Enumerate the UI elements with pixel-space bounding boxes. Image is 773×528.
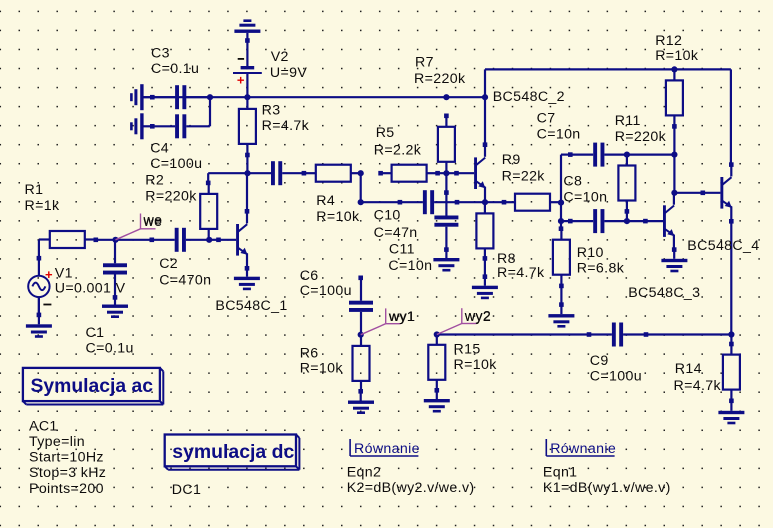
svg-text:R=10k: R=10k bbox=[655, 48, 699, 64]
svg-text:C=0.1u: C=0.1u bbox=[86, 341, 134, 357]
svg-text:R=1k: R=1k bbox=[25, 198, 60, 214]
svg-text:C3: C3 bbox=[151, 45, 170, 61]
svg-text:R5: R5 bbox=[376, 125, 395, 141]
svg-text:R=10k: R=10k bbox=[300, 361, 344, 377]
svg-text:wy1: wy1 bbox=[388, 309, 415, 325]
svg-text:V2: V2 bbox=[271, 49, 289, 65]
svg-text:R=4.7k: R=4.7k bbox=[674, 378, 722, 394]
svg-text:R=2.2k: R=2.2k bbox=[374, 142, 422, 158]
svg-text:R=22k: R=22k bbox=[502, 169, 546, 185]
svg-text:R=10k: R=10k bbox=[316, 209, 360, 225]
svg-text:Równanie: Równanie bbox=[550, 441, 616, 457]
svg-text:C2: C2 bbox=[159, 256, 178, 272]
svg-text:wy2: wy2 bbox=[464, 309, 491, 325]
svg-text:R11: R11 bbox=[615, 113, 641, 129]
svg-text:AC1: AC1 bbox=[29, 419, 58, 435]
svg-text:R15: R15 bbox=[454, 342, 481, 358]
svg-text:R2: R2 bbox=[145, 172, 164, 188]
svg-text:U=0.001 V: U=0.001 V bbox=[55, 281, 126, 297]
svg-text:V1: V1 bbox=[55, 265, 73, 281]
svg-text:C8: C8 bbox=[563, 174, 582, 190]
svg-text:R=10k: R=10k bbox=[454, 357, 498, 373]
svg-text:C4: C4 bbox=[150, 141, 169, 157]
svg-text:BC548C_3: BC548C_3 bbox=[628, 285, 700, 301]
svg-text:C=10n: C=10n bbox=[537, 127, 581, 143]
svg-text:R4: R4 bbox=[316, 193, 335, 209]
svg-text:U=9V: U=9V bbox=[270, 65, 307, 81]
svg-text:C11: C11 bbox=[389, 242, 415, 258]
svg-text:Stop=3 kHz: Stop=3 kHz bbox=[29, 465, 106, 481]
svg-text:R=4.7k: R=4.7k bbox=[497, 265, 545, 281]
svg-text:R=220k: R=220k bbox=[145, 188, 197, 204]
svg-text:Eqn1: Eqn1 bbox=[543, 465, 578, 481]
svg-text:Równanie: Równanie bbox=[354, 441, 420, 457]
svg-text:C=100u: C=100u bbox=[590, 368, 642, 384]
svg-text:R1: R1 bbox=[25, 182, 44, 198]
svg-text:BC548C_2: BC548C_2 bbox=[493, 89, 565, 105]
svg-text:Points=200: Points=200 bbox=[29, 481, 104, 497]
svg-text:Start=10Hz: Start=10Hz bbox=[29, 450, 104, 466]
svg-text:R12: R12 bbox=[655, 33, 682, 49]
svg-text:R3: R3 bbox=[262, 102, 281, 118]
svg-text:C9: C9 bbox=[590, 353, 609, 369]
svg-text:R9: R9 bbox=[502, 152, 521, 168]
svg-text:C=10n: C=10n bbox=[388, 258, 432, 274]
svg-text:C=470n: C=470n bbox=[159, 272, 211, 288]
svg-text:we: we bbox=[143, 212, 163, 228]
svg-text:+: + bbox=[45, 267, 53, 282]
svg-text:C10: C10 bbox=[374, 207, 401, 223]
svg-text:BC548C_1: BC548C_1 bbox=[215, 298, 287, 314]
svg-text:Eqn2: Eqn2 bbox=[347, 465, 382, 481]
svg-text:+: + bbox=[237, 72, 245, 87]
svg-text:R6: R6 bbox=[300, 345, 319, 361]
svg-text:C7: C7 bbox=[537, 111, 556, 127]
svg-text:Type=lin: Type=lin bbox=[29, 434, 85, 450]
svg-text:C=0.1u: C=0.1u bbox=[151, 61, 199, 77]
svg-text:R7: R7 bbox=[415, 55, 434, 71]
svg-text:symulacja dc: symulacja dc bbox=[172, 441, 294, 463]
svg-text:C1: C1 bbox=[86, 325, 105, 341]
svg-text:Symulacja ac: Symulacja ac bbox=[31, 375, 154, 397]
svg-text:R=220k: R=220k bbox=[615, 129, 667, 145]
svg-text:C=10n: C=10n bbox=[563, 190, 607, 206]
svg-text:DC1: DC1 bbox=[172, 482, 201, 498]
svg-text:R=4.7k: R=4.7k bbox=[262, 118, 310, 134]
svg-text:C6: C6 bbox=[300, 268, 319, 284]
svg-text:R10: R10 bbox=[577, 245, 604, 261]
svg-text:R14: R14 bbox=[675, 361, 702, 377]
svg-text:C=100u: C=100u bbox=[150, 156, 202, 172]
svg-text:R=6.8k: R=6.8k bbox=[577, 260, 625, 276]
svg-text:R=220k: R=220k bbox=[414, 71, 466, 87]
svg-text:K2=dB(wy2.v/we.v): K2=dB(wy2.v/we.v) bbox=[347, 480, 475, 496]
svg-text:C=100u: C=100u bbox=[300, 283, 352, 299]
svg-text:C=47n: C=47n bbox=[374, 225, 418, 241]
svg-text:K1=dB(wy1.v/we.v): K1=dB(wy1.v/we.v) bbox=[543, 480, 671, 496]
svg-text:BC548C_4: BC548C_4 bbox=[687, 238, 759, 254]
